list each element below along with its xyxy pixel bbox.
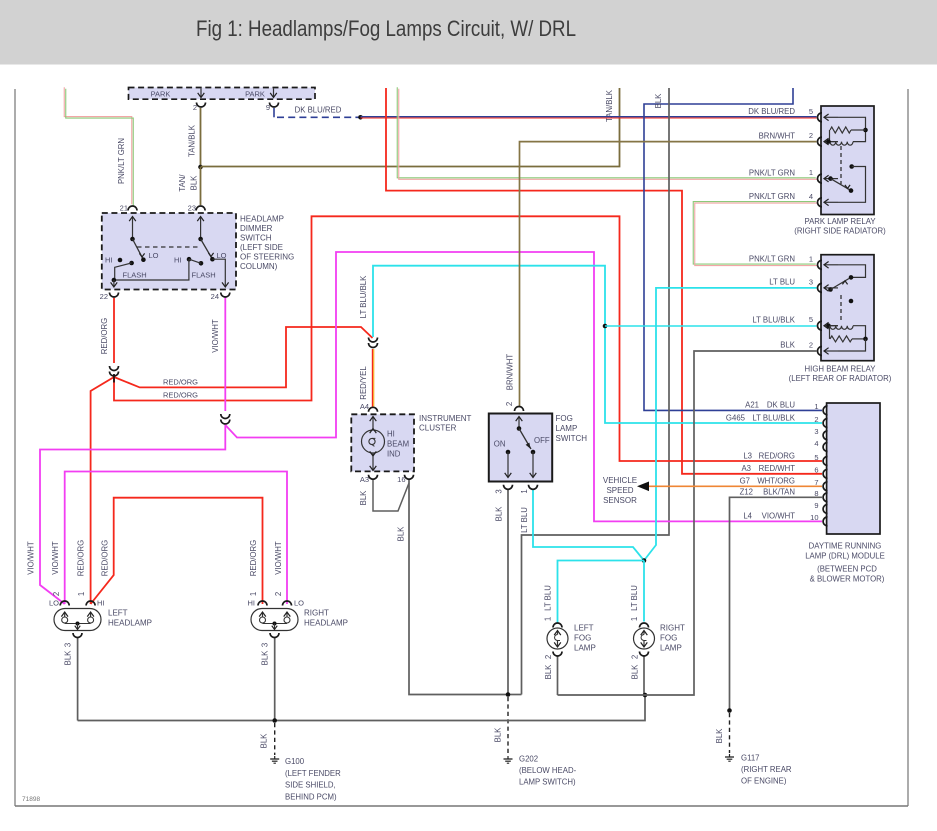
svg-text:RED/ORG: RED/ORG bbox=[77, 540, 86, 576]
svg-text:FLASH: FLASH bbox=[123, 271, 147, 280]
svg-text:BLK: BLK bbox=[654, 93, 663, 109]
svg-text:Fig 1: Headlamps/Fog Lamps Cir: Fig 1: Headlamps/Fog Lamps Circuit, W/ D… bbox=[196, 16, 576, 41]
svg-text:BLK: BLK bbox=[544, 664, 553, 680]
svg-text:22: 22 bbox=[100, 292, 108, 301]
svg-text:WHT/ORG: WHT/ORG bbox=[757, 477, 795, 486]
svg-text:24: 24 bbox=[211, 292, 219, 301]
svg-text:10: 10 bbox=[810, 513, 818, 522]
svg-text:8: 8 bbox=[814, 489, 818, 498]
svg-text:RED/WHT: RED/WHT bbox=[759, 464, 796, 473]
svg-text:3: 3 bbox=[495, 489, 504, 493]
svg-text:SWITCH: SWITCH bbox=[556, 434, 588, 443]
svg-text:LT BLU: LT BLU bbox=[544, 585, 553, 611]
svg-text:2: 2 bbox=[631, 655, 640, 659]
svg-text:SIDE SHIELD,: SIDE SHIELD, bbox=[285, 781, 336, 790]
svg-text:PARK: PARK bbox=[245, 89, 265, 98]
svg-text:PARK LAMP RELAY: PARK LAMP RELAY bbox=[804, 217, 876, 226]
svg-text:3: 3 bbox=[814, 427, 818, 436]
svg-text:(RIGHT REAR: (RIGHT REAR bbox=[741, 765, 792, 774]
svg-text:SWITCH: SWITCH bbox=[240, 234, 272, 243]
svg-text:OF STEERING: OF STEERING bbox=[240, 253, 294, 262]
svg-text:4: 4 bbox=[814, 439, 818, 448]
svg-text:DK BLU/RED: DK BLU/RED bbox=[748, 107, 795, 116]
svg-text:1: 1 bbox=[809, 168, 813, 177]
svg-text:DK BLU: DK BLU bbox=[767, 401, 796, 410]
svg-text:FOG: FOG bbox=[660, 634, 677, 643]
svg-text:(LEFT REAR OF RADIATOR): (LEFT REAR OF RADIATOR) bbox=[789, 374, 892, 383]
svg-text:LT BLU: LT BLU bbox=[520, 507, 529, 533]
svg-text:LT BLU: LT BLU bbox=[630, 585, 639, 611]
svg-text:VIO/WHT: VIO/WHT bbox=[51, 541, 60, 575]
svg-text:BLK: BLK bbox=[261, 650, 270, 666]
svg-text:A4: A4 bbox=[360, 402, 369, 411]
svg-text:LO: LO bbox=[149, 251, 159, 260]
svg-text:RIGHT: RIGHT bbox=[660, 624, 685, 633]
svg-text:VIO/WHT: VIO/WHT bbox=[27, 541, 36, 575]
svg-text:IND: IND bbox=[387, 450, 401, 459]
svg-text:LEFT: LEFT bbox=[108, 609, 128, 618]
svg-text:ON: ON bbox=[494, 440, 506, 449]
svg-text:PNK/LT GRN: PNK/LT GRN bbox=[749, 192, 795, 201]
svg-text:VEHICLE: VEHICLE bbox=[603, 476, 637, 485]
svg-text:DK BLU/RED: DK BLU/RED bbox=[295, 106, 342, 115]
svg-text:RIGHT: RIGHT bbox=[304, 609, 329, 618]
svg-text:2: 2 bbox=[809, 131, 813, 140]
svg-text:LT BLU: LT BLU bbox=[769, 278, 795, 287]
svg-text:3: 3 bbox=[809, 277, 813, 286]
svg-text:71898: 71898 bbox=[22, 796, 40, 803]
svg-text:TAN/BLK: TAN/BLK bbox=[188, 124, 197, 157]
svg-text:SENSOR: SENSOR bbox=[603, 496, 637, 505]
svg-text:L3: L3 bbox=[743, 451, 752, 460]
svg-text:CLUSTER: CLUSTER bbox=[419, 424, 457, 433]
svg-text:HI: HI bbox=[97, 599, 105, 608]
svg-text:RED/ORG: RED/ORG bbox=[163, 378, 198, 387]
svg-text:3: 3 bbox=[261, 643, 270, 647]
svg-text:FOG: FOG bbox=[556, 414, 573, 423]
svg-text:2: 2 bbox=[809, 341, 813, 350]
svg-text:(RIGHT SIDE RADIATOR): (RIGHT SIDE RADIATOR) bbox=[794, 227, 886, 236]
svg-text:RED/ORG: RED/ORG bbox=[759, 451, 795, 460]
svg-text:23: 23 bbox=[188, 204, 196, 213]
svg-text:BLK: BLK bbox=[715, 728, 724, 744]
svg-text:Z12: Z12 bbox=[740, 488, 753, 497]
svg-text:BLK: BLK bbox=[495, 506, 504, 522]
svg-text:BLK: BLK bbox=[780, 341, 796, 350]
svg-text:OF ENGINE): OF ENGINE) bbox=[741, 777, 787, 786]
svg-text:VIO/WHT: VIO/WHT bbox=[274, 541, 283, 575]
svg-text:RED/ORG: RED/ORG bbox=[163, 391, 198, 400]
svg-text:LAMP (DRL) MODULE: LAMP (DRL) MODULE bbox=[805, 552, 885, 561]
svg-text:(LEFT SIDE: (LEFT SIDE bbox=[240, 243, 283, 252]
svg-text:RED/ORG: RED/ORG bbox=[101, 540, 110, 576]
svg-text:OFF: OFF bbox=[534, 436, 550, 445]
svg-text:HI: HI bbox=[105, 256, 113, 265]
svg-text:PNK/LT GRN: PNK/LT GRN bbox=[749, 168, 795, 177]
svg-text:2: 2 bbox=[52, 592, 61, 596]
svg-text:LAMP: LAMP bbox=[574, 644, 596, 653]
svg-text:BEAM: BEAM bbox=[387, 440, 409, 449]
svg-text:LAMP SWITCH): LAMP SWITCH) bbox=[519, 778, 576, 787]
svg-text:G465: G465 bbox=[726, 413, 746, 422]
svg-text:(LEFT FENDER: (LEFT FENDER bbox=[285, 769, 341, 778]
svg-text:1: 1 bbox=[809, 254, 813, 263]
svg-text:2: 2 bbox=[544, 655, 553, 659]
svg-text:LO: LO bbox=[294, 599, 304, 608]
svg-text:DIMMER: DIMMER bbox=[240, 224, 273, 233]
svg-text:1: 1 bbox=[77, 592, 86, 596]
svg-text:HEADLAMP: HEADLAMP bbox=[108, 619, 152, 628]
svg-text:& BLOWER MOTOR): & BLOWER MOTOR) bbox=[810, 575, 885, 584]
svg-text:21: 21 bbox=[120, 204, 128, 213]
svg-text:1: 1 bbox=[520, 489, 529, 493]
svg-text:HI: HI bbox=[174, 256, 182, 265]
svg-text:BRN/WHT: BRN/WHT bbox=[506, 354, 515, 391]
svg-text:BRN/WHT: BRN/WHT bbox=[759, 131, 796, 140]
svg-text:FOG: FOG bbox=[574, 634, 591, 643]
svg-text:9: 9 bbox=[266, 103, 270, 112]
svg-text:16: 16 bbox=[397, 475, 405, 484]
svg-text:1: 1 bbox=[814, 402, 818, 411]
svg-text:9: 9 bbox=[814, 501, 818, 510]
svg-text:BLK: BLK bbox=[631, 664, 640, 680]
svg-text:VIO/WHT: VIO/WHT bbox=[211, 319, 220, 353]
svg-text:PNK/LT GRN: PNK/LT GRN bbox=[749, 255, 795, 264]
svg-text:G202: G202 bbox=[519, 755, 538, 764]
svg-text:BLK: BLK bbox=[260, 733, 269, 749]
svg-text:BLK: BLK bbox=[397, 526, 406, 542]
svg-text:INSTRUMENT: INSTRUMENT bbox=[419, 414, 472, 423]
svg-text:PNK/LT GRN: PNK/LT GRN bbox=[117, 138, 126, 184]
svg-text:BLK: BLK bbox=[494, 727, 503, 743]
svg-text:1: 1 bbox=[249, 592, 258, 596]
svg-text:5: 5 bbox=[809, 107, 813, 116]
svg-text:HI: HI bbox=[387, 430, 395, 439]
svg-text:DAYTIME RUNNING: DAYTIME RUNNING bbox=[809, 542, 882, 551]
svg-text:RED/ORG: RED/ORG bbox=[100, 318, 109, 354]
svg-text:6: 6 bbox=[814, 466, 818, 475]
svg-text:RED/ORG: RED/ORG bbox=[249, 540, 258, 576]
svg-text:TAN/: TAN/ bbox=[178, 174, 187, 192]
svg-text:LT BLU/BLK: LT BLU/BLK bbox=[752, 315, 795, 324]
svg-text:LO: LO bbox=[217, 251, 227, 260]
svg-text:A3: A3 bbox=[741, 464, 751, 473]
svg-text:LT BLU/BLK: LT BLU/BLK bbox=[359, 275, 368, 318]
svg-text:FLASH: FLASH bbox=[192, 271, 216, 280]
svg-text:5: 5 bbox=[809, 315, 813, 324]
svg-text:2: 2 bbox=[274, 592, 283, 596]
svg-text:2: 2 bbox=[193, 103, 197, 112]
svg-text:LAMP: LAMP bbox=[660, 644, 682, 653]
svg-text:HEADLAMP: HEADLAMP bbox=[304, 619, 348, 628]
svg-text:2: 2 bbox=[505, 402, 514, 406]
svg-text:SPEED: SPEED bbox=[606, 486, 633, 495]
svg-text:BLK: BLK bbox=[64, 650, 73, 666]
svg-text:5: 5 bbox=[814, 453, 818, 462]
svg-text:4: 4 bbox=[809, 192, 813, 201]
svg-text:HIGH BEAM RELAY: HIGH BEAM RELAY bbox=[805, 365, 877, 374]
svg-text:BLK/TAN: BLK/TAN bbox=[763, 488, 795, 497]
svg-text:1: 1 bbox=[630, 617, 639, 621]
svg-text:3: 3 bbox=[64, 643, 73, 647]
svg-text:A21: A21 bbox=[745, 401, 759, 410]
svg-text:7: 7 bbox=[814, 478, 818, 487]
svg-text:G7: G7 bbox=[740, 477, 750, 486]
svg-text:LAMP: LAMP bbox=[556, 424, 578, 433]
svg-text:2: 2 bbox=[814, 415, 818, 424]
svg-text:HEADLAMP: HEADLAMP bbox=[240, 215, 284, 224]
svg-text:LT BLU/BLK: LT BLU/BLK bbox=[752, 413, 795, 422]
svg-text:G117: G117 bbox=[741, 754, 760, 763]
svg-text:RED/YEL: RED/YEL bbox=[359, 366, 368, 400]
svg-text:BEHIND PCM): BEHIND PCM) bbox=[285, 792, 337, 801]
svg-text:LO: LO bbox=[49, 599, 59, 608]
svg-text:G100: G100 bbox=[285, 757, 305, 766]
svg-text:L4: L4 bbox=[743, 512, 752, 521]
svg-text:COLUMN): COLUMN) bbox=[240, 262, 278, 271]
svg-text:BLK: BLK bbox=[190, 175, 199, 191]
svg-text:VIO/WHT: VIO/WHT bbox=[762, 512, 796, 521]
svg-text:BLK: BLK bbox=[359, 490, 368, 506]
svg-text:PARK: PARK bbox=[151, 89, 171, 98]
svg-text:HI: HI bbox=[248, 599, 256, 608]
svg-text:LEFT: LEFT bbox=[574, 624, 594, 633]
svg-text:(BELOW HEAD-: (BELOW HEAD- bbox=[519, 766, 577, 775]
svg-text:(BETWEEN PCD: (BETWEEN PCD bbox=[817, 565, 877, 574]
svg-text:A3: A3 bbox=[360, 475, 369, 484]
svg-text:1: 1 bbox=[544, 617, 553, 621]
